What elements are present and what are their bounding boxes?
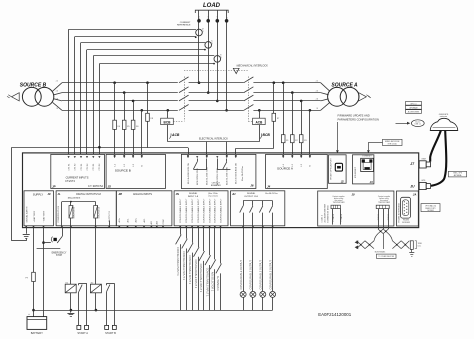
- svg-text:JA: JA: [413, 193, 417, 197]
- source A phase label L3: [316, 99, 319, 101]
- terminal tick top x141.8: [141, 155, 143, 157]
- svg-text:SOURCE A: SOURCE A: [97, 207, 100, 219]
- terminal tick top x188.0: [187, 155, 189, 157]
- digital input terminal 1: [179, 198, 182, 228]
- wire battery minus: [42, 228, 45, 317]
- field switch input 1: [176, 228, 182, 311]
- svg-text:CT1/CT4: CT1/CT4: [65, 180, 75, 183]
- svg-text:CONFIGURABLE INPUT 1: CONFIGURABLE INPUT 1: [194, 259, 197, 288]
- field switch input 8: [216, 228, 222, 311]
- DB9 connector: [401, 197, 411, 218]
- current reference label: [177, 22, 191, 27]
- svg-text:BUS RS485: BUS RS485: [375, 252, 385, 254]
- wire CT secondary 3: [81, 43, 206, 155]
- svg-text:EXPANSION MOD.: EXPANSION MOD.: [327, 204, 330, 222]
- J0 right terminal strip: [376, 205, 389, 208]
- svg-text:GSM + GPS: GSM + GPS: [453, 173, 462, 175]
- digital output driver 1: [69, 202, 76, 226]
- mechanical interlock label: [237, 64, 269, 67]
- terminal tick top x226.8: [226, 155, 228, 157]
- svg-text:CONFIGURABLE OUTPUT: CONFIGURABLE OUTPUT: [260, 260, 263, 290]
- emergency stop label: [52, 252, 67, 257]
- breaker B contact L2: [179, 87, 189, 93]
- terminal breaker 3: [206, 156, 208, 158]
- JA side note: [421, 204, 440, 212]
- breaker A contact L2: [244, 87, 254, 93]
- circuit breaker box J6: [181, 154, 256, 188]
- node source A L1 tap: [282, 81, 285, 84]
- ground RS485: [409, 253, 414, 257]
- svg-text:UPD 4.x: UPD 4.x: [410, 103, 416, 105]
- J0 right note: [378, 195, 391, 204]
- supply box J9: [24, 191, 54, 226]
- analog input terminal 7: [162, 219, 165, 228]
- CT3 on load L3: [213, 53, 223, 64]
- wire transfer bus L1: [189, 82, 244, 84]
- mechanical interlock dashes left: [184, 77, 186, 122]
- svg-text:AUTO/MAN 1: AUTO/MAN 1: [216, 276, 219, 291]
- field switch input 2: [182, 228, 188, 311]
- svg-text:CONFIGURABLE INPUT 1: CONFIGURABLE INPUT 1: [182, 251, 185, 280]
- wire source B bus L2: [62, 92, 178, 94]
- breaker terminal label 4: [216, 168, 219, 185]
- electrical interlock label: [199, 138, 228, 141]
- terminal digital output x70.9: [70, 226, 72, 228]
- digital input terminal 8: [219, 198, 222, 228]
- fuse F9: [26, 272, 36, 281]
- svg-text:ETHERNET: ETHERNET: [363, 156, 372, 158]
- J0 left terminal strip: [331, 205, 340, 208]
- svg-text:BREAKER: BREAKER: [211, 184, 221, 187]
- RS485 branch right: [388, 234, 392, 241]
- svg-text:CT2 S2: CT2 S2: [87, 163, 89, 171]
- source B phase label L1: [56, 81, 58, 83]
- svg-text:BATTERY: BATTERY: [31, 331, 43, 335]
- breaker box switch 2: [217, 159, 230, 170]
- svg-text:INPUT 1-8: INPUT 1-8: [188, 196, 199, 198]
- svg-text:BCB: BCB: [164, 121, 172, 125]
- wire signal earth loop: [12, 147, 27, 241]
- breaker A contact L3: [244, 95, 254, 101]
- svg-text:CONFIGURABLE INPUT 1: CONFIGURABLE INPUT 1: [176, 247, 179, 276]
- mechanical interlock link: [184, 68, 248, 73]
- svg-text:J4: J4: [267, 184, 271, 188]
- source B phase label N: [57, 108, 59, 110]
- svg-text:REFERENCE: REFERENCE: [177, 25, 191, 27]
- svg-text:JN: JN: [176, 192, 179, 196]
- termination value: [415, 241, 423, 249]
- svg-text:USB 1.1: USB 1.1: [415, 124, 421, 126]
- fuse F8: [146, 83, 154, 148]
- terminal source A N: [309, 156, 312, 166]
- terminal digital output x95.6: [95, 226, 97, 228]
- svg-text:CONFIGURABLE INPUT: CONFIGURABLE INPUT: [191, 198, 194, 223]
- dashed link ACB: [248, 121, 252, 123]
- wire interlock stub 1: [206, 142, 208, 155]
- svg-text:TWISTED PAIR: TWISTED PAIR: [333, 201, 346, 204]
- relay K1 contact: [79, 283, 87, 325]
- terminal START B: [105, 325, 117, 335]
- svg-text:(Max24/30V): (Max24/30V): [68, 198, 81, 200]
- svg-text:CT2 S1: CT2 S1: [81, 163, 83, 171]
- svg-text:− CAN A: − CAN A: [340, 213, 343, 222]
- source A phase label N: [317, 108, 319, 110]
- svg-text:ELECTRICAL INTERLOCK: ELECTRICAL INTERLOCK: [199, 138, 228, 141]
- wired network label: [383, 139, 403, 145]
- svg-text:CT3 S2: CT3 S2: [99, 163, 101, 171]
- svg-text:dry contact): dry contact): [208, 195, 218, 198]
- digital outputs internal bus: [62, 201, 96, 226]
- wire CT secondary 6: [99, 64, 214, 155]
- svg-text:CONFIGURABLE INPUT 1: CONFIGURABLE INPUT 1: [188, 255, 191, 284]
- svg-text:CURRENT: CURRENT: [180, 22, 191, 24]
- svg-text:CONFIGURABLE INPUT: CONFIGURABLE INPUT: [197, 198, 200, 223]
- svg-text:A/B SELECTOR 1: A/B SELECTOR 1: [211, 272, 214, 292]
- ground signal earth: [23, 228, 30, 239]
- output contact 3: [259, 201, 264, 228]
- svg-text:CONFIGURABLE OUTPUT: CONFIGURABLE OUTPUT: [269, 260, 272, 290]
- node ACB tap on N: [258, 109, 261, 112]
- terminal breaker 4: [216, 156, 218, 158]
- terminal breaker 2: [196, 156, 198, 158]
- svg-text:AI1-: AI1-: [126, 218, 129, 222]
- node BCB tap on N: [167, 109, 170, 112]
- load phase label L3: [217, 15, 219, 18]
- breaker terminal label 1: [187, 163, 190, 184]
- svg-text:CONFIGURABLE OUTPUT: CONFIGURABLE OUTPUT: [250, 260, 253, 290]
- fuse F5: [122, 93, 130, 155]
- load phase label L1: [199, 15, 201, 18]
- RS485 interface box JA: [397, 191, 419, 226]
- terminal tick top x283.2: [282, 155, 284, 157]
- output contact 4: [269, 201, 274, 228]
- svg-text:+ CAN A: + CAN A: [332, 213, 335, 222]
- source B label: [20, 82, 47, 88]
- svg-text:TWISTED PAIR: TWISTED PAIR: [378, 201, 391, 204]
- svg-text:COAX 1: COAX 1: [321, 214, 324, 222]
- digital input terminal 5: [202, 198, 205, 228]
- terminal supply minus: [42, 226, 44, 228]
- lamp output 4: [269, 228, 275, 311]
- wire source B bus N: [62, 110, 178, 112]
- wire CT secondary 5: [93, 56, 214, 155]
- digital output driver 2: [94, 202, 101, 226]
- wire source A fan L2: [321, 93, 329, 95]
- svg-text:ACCELEROMETER: ACCELEROMETER: [324, 204, 327, 223]
- svg-text:START A: START A: [77, 331, 88, 335]
- wire common negative: [34, 310, 273, 312]
- wire electrical interlock: [168, 141, 259, 143]
- wire load L3 vertical: [216, 10, 220, 102]
- terminal tick top x309.9: [309, 155, 311, 157]
- node F8 tap on L1: [146, 81, 149, 84]
- terminal breaker 1: [187, 156, 189, 158]
- BCB label right: [260, 133, 270, 138]
- field switch input 7: [210, 228, 216, 311]
- wire load L2 vertical: [206, 10, 210, 94]
- analog input terminal 1: [118, 217, 121, 228]
- node source B L1 tap: [113, 81, 116, 84]
- svg-text:SUPPLY: SUPPLY: [33, 192, 44, 196]
- terminal current input 5: [92, 156, 95, 170]
- terminal tick top x206.8: [206, 155, 208, 157]
- analog input terminal 3: [135, 217, 138, 228]
- terminal source B N: [141, 156, 144, 166]
- svg-text:BCB OPEN CMD: BCB OPEN CMD: [197, 168, 199, 185]
- svg-text:EMERGENCY: EMERGENCY: [52, 252, 67, 254]
- wire source B fan L1: [53, 83, 62, 92]
- BCB coil box: [161, 110, 174, 142]
- digital output terminal 4: [109, 210, 111, 225]
- wire RS485 GND: [387, 209, 390, 229]
- svg-text:J3: J3: [370, 180, 373, 184]
- svg-text:SIGNAL EARTH: SIGNAL EARTH: [25, 206, 28, 222]
- breaker A contact L1: [244, 77, 254, 83]
- terminal current input 2: [74, 156, 77, 170]
- source A label: [331, 82, 358, 88]
- svg-text:CT1 S2: CT1 S2: [75, 163, 77, 171]
- antenna note box: [448, 171, 466, 177]
- source B transformer: [22, 87, 53, 106]
- svg-text:CONFIGURABLE OUTPUT: CONFIGURABLE OUTPUT: [240, 260, 243, 290]
- ACB label left: [169, 133, 180, 138]
- terminal current input 3: [80, 156, 83, 170]
- node source B L2 tap: [123, 91, 126, 94]
- breaker terminal label 6: [235, 162, 238, 184]
- output contact 2: [250, 201, 255, 228]
- svg-text:OUTPUT 8: OUTPUT 8: [109, 210, 111, 222]
- svg-text:FIRMWARE UPDATE AND: FIRMWARE UPDATE AND: [338, 114, 370, 118]
- wire RS485 A: [377, 209, 380, 229]
- ethernet box J3: [353, 155, 374, 184]
- wire CAN A plus: [332, 209, 335, 225]
- svg-text:GSM: GSM: [421, 159, 426, 161]
- wire transfer bus L3: [189, 100, 244, 102]
- wire source A bus L3: [253, 100, 320, 102]
- terminal breaker 6: [235, 156, 237, 158]
- connector JT: [419, 159, 430, 168]
- wire transfer bus N: [189, 110, 244, 112]
- svg-text:BCB: BCB: [263, 133, 271, 137]
- svg-text:JU: JU: [410, 185, 415, 189]
- svg-text:ETHERNET: ETHERNET: [355, 166, 357, 178]
- svg-text:ACB OPEN CMD: ACB OPEN CMD: [216, 168, 219, 185]
- wire emergency stop link: [37, 248, 61, 250]
- field switch input 4: [194, 228, 200, 311]
- digital outputs box JL: [56, 191, 116, 226]
- wire source B fan L3: [54, 99, 62, 101]
- bus note box: [376, 254, 396, 258]
- digital input terminal 3: [191, 198, 194, 228]
- wire F8 to breaker input: [148, 148, 189, 155]
- svg-text:J5: J5: [108, 184, 112, 188]
- wire source B N drop: [141, 109, 144, 154]
- RS485 branch middle: [383, 234, 385, 249]
- arrow firmware to front port: [336, 122, 339, 153]
- node source A L2 tap: [291, 91, 294, 94]
- terminal tick top x235.8: [235, 155, 237, 157]
- field switch input 5: [199, 228, 205, 311]
- breaker B contact L3: [179, 95, 189, 101]
- terminal tick top x133.1: [132, 155, 134, 157]
- arrowheads to other devices left: [355, 240, 359, 249]
- firmware update label: [338, 114, 379, 122]
- source A winding delta symbol: [359, 93, 371, 101]
- emergency stop switch: [44, 228, 63, 243]
- lamp output 3: [260, 228, 266, 311]
- terminal supply earth: [25, 226, 27, 228]
- bus label: [375, 252, 385, 254]
- svg-text:antenna: antenna: [440, 115, 448, 118]
- svg-text:CT1 S1: CT1 S1: [68, 163, 70, 171]
- svg-text:AI2-: AI2-: [143, 218, 146, 222]
- relay K2 contact: [107, 283, 115, 325]
- load bracket: [195, 10, 228, 13]
- svg-text:JP: JP: [52, 184, 56, 188]
- terminal source A L1: [282, 156, 285, 166]
- RS485 braid crossing: [378, 229, 388, 234]
- svg-text:DIGITAL: DIGITAL: [247, 192, 256, 195]
- svg-text:STOP: STOP: [56, 255, 63, 257]
- source A phase label L2: [316, 90, 319, 92]
- wire source B fan N: [53, 102, 62, 110]
- USB icon: [335, 163, 342, 171]
- breaker terminal label 5: [226, 166, 229, 185]
- wire interlock stub 2: [226, 142, 228, 155]
- arrow network to ethernet port: [367, 142, 383, 153]
- digital output 11 box JH: [231, 191, 285, 226]
- fuse F3: [299, 101, 307, 154]
- svg-text:MECHANICAL INTERLOCK: MECHANICAL INTERLOCK: [237, 64, 269, 67]
- relay K1 coil: [65, 228, 76, 312]
- svg-text:OUTPUT 11-8: OUTPUT 11-8: [244, 196, 259, 198]
- wire CAN A minus: [340, 209, 343, 225]
- svg-text:CONFIGURABLE INPUT: CONFIGURABLE INPUT: [219, 198, 222, 223]
- svg-text:CONFIGURABLE INPUT: CONFIGURABLE INPUT: [202, 198, 205, 223]
- svg-text:SOURCE B: SOURCE B: [115, 169, 131, 173]
- antenna cable to JT: [430, 131, 441, 162]
- svg-text:J0: J0: [351, 192, 355, 196]
- svg-text:START B: START B: [105, 331, 116, 335]
- antenna dome: [430, 118, 458, 130]
- terminal tick top x292.3: [291, 155, 293, 157]
- CT1 on load L1: [195, 27, 205, 38]
- dashed link BCB: [173, 121, 183, 123]
- wire source A bus N: [253, 110, 320, 112]
- RJ45 icon: [361, 158, 374, 171]
- wire source A bus L2: [253, 92, 320, 94]
- mechanical interlock dashes right: [248, 77, 250, 122]
- current inputs box JP: [51, 154, 105, 188]
- svg-text:GPS: GPS: [421, 180, 426, 182]
- digital input terminal 4: [197, 198, 200, 228]
- digital input terminal 6: [208, 198, 211, 228]
- svg-text:CURRENT INPUTS: CURRENT INPUTS: [66, 176, 89, 180]
- svg-text:LOAD: LOAD: [203, 3, 221, 9]
- arrow firmware to USB key: [396, 122, 411, 125]
- svg-text:CONFIGURABLE INPUT: CONFIGURABLE INPUT: [214, 198, 217, 223]
- analog input terminal 2: [126, 218, 129, 228]
- terminal tick top x124.2: [123, 155, 125, 157]
- svg-text:CONFIGURABLE INPUT: CONFIGURABLE INPUT: [208, 198, 211, 223]
- breaker A contact N: [244, 105, 254, 111]
- node source B L3 tap: [132, 100, 135, 103]
- fuse F4: [113, 83, 121, 155]
- svg-text:BUS B SIDE ACB ON: BUS B SIDE ACB ON: [235, 162, 238, 184]
- CT2 on load L2: [204, 39, 214, 50]
- svg-text:AI2+: AI2+: [135, 217, 138, 222]
- wire F7 to breaker input: [236, 148, 274, 154]
- svg-text:UPGRADE: UPGRADE: [409, 106, 418, 109]
- antenna label: [439, 114, 449, 118]
- relay K2 coil: [90, 228, 101, 312]
- DB9 caption: [402, 220, 410, 224]
- wire load N vertical: [225, 10, 229, 111]
- terminal tick top x114.6: [114, 155, 116, 157]
- front port box J2: [329, 155, 347, 184]
- svg-text:CT3 S1: CT3 S1: [93, 163, 95, 171]
- wire current reference common: [12, 146, 148, 149]
- wire source A fan L1: [321, 83, 330, 92]
- field switch input 6: [205, 228, 211, 311]
- source B winding delta symbol: [7, 93, 19, 101]
- controller outline: [23, 153, 419, 228]
- battery: [27, 313, 47, 335]
- wire RS485 B: [383, 209, 385, 229]
- lamp output 1: [240, 228, 246, 311]
- wire source B fan L2: [54, 93, 62, 95]
- breaker B contact L1: [179, 77, 189, 83]
- fuse F7: [272, 83, 280, 149]
- svg-text:TO OTHER DEVICES: TO OTHER DEVICES: [378, 256, 394, 258]
- field switch input 3: [188, 228, 194, 311]
- wire CT secondary 1: [69, 29, 197, 154]
- svg-text:JH: JH: [232, 192, 235, 196]
- breaker terminal label 3: [207, 166, 209, 185]
- svg-text:RS485 PORT /: RS485 PORT /: [425, 208, 436, 210]
- svg-text:AI1+: AI1+: [118, 217, 121, 222]
- breaker box switch 1: [193, 159, 206, 170]
- svg-text:CONFIGURABLE INPUT: CONFIGURABLE INPUT: [179, 198, 182, 223]
- node source A L3 tap: [300, 100, 303, 103]
- software boxes stack: [406, 102, 422, 114]
- terminal source B L3: [132, 156, 135, 166]
- output contact 1: [240, 201, 245, 228]
- wire load L1 vertical: [197, 10, 201, 84]
- JU label: [410, 185, 415, 189]
- fuse F2: [291, 93, 299, 155]
- svg-text:− BATTERY: − BATTERY: [43, 210, 46, 222]
- terminal source A L3: [300, 156, 303, 166]
- JT label: [410, 162, 415, 166]
- terminal supply plus: [32, 226, 34, 228]
- svg-text:COMMON PLUS: COMMON PLUS: [58, 205, 60, 222]
- digital input box JN: [174, 191, 228, 226]
- svg-text:COM: COM: [163, 219, 165, 224]
- USB key ellipse: [411, 120, 424, 127]
- svg-text:ACB: ACB: [171, 133, 180, 137]
- svg-text:L1: L1: [56, 81, 58, 83]
- node F7 tap on L1: [273, 81, 276, 84]
- wire CT secondary 2: [75, 37, 196, 155]
- svg-text:ETH 10/100: ETH 10/100: [388, 143, 397, 145]
- ground battery common: [67, 310, 74, 316]
- termination resistor: [410, 241, 413, 253]
- svg-text:ANALOG INPUTS: ANALOG INPUTS: [133, 193, 152, 196]
- J0 box: [318, 191, 394, 226]
- wire transfer bus L2: [189, 92, 244, 94]
- terminal current input 1: [68, 156, 71, 170]
